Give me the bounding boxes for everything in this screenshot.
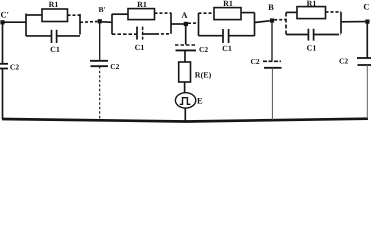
svg-text:C2: C2 xyxy=(199,45,208,54)
svg-text:B: B xyxy=(268,2,274,12)
svg-text:C′: C′ xyxy=(1,10,10,20)
svg-text:A: A xyxy=(181,10,188,20)
svg-text:C: C xyxy=(363,2,369,12)
svg-text:R1: R1 xyxy=(223,0,233,8)
svg-text:E: E xyxy=(197,95,203,105)
svg-text:C1: C1 xyxy=(50,45,60,54)
svg-text:C2: C2 xyxy=(10,63,19,72)
svg-text:B′: B′ xyxy=(98,5,105,14)
svg-text:C1: C1 xyxy=(307,43,317,52)
svg-text:R1: R1 xyxy=(307,0,317,8)
svg-text:R1: R1 xyxy=(49,0,59,9)
svg-text:R1: R1 xyxy=(137,0,147,9)
svg-text:R(E): R(E) xyxy=(195,71,212,80)
svg-text:C2: C2 xyxy=(339,57,348,66)
svg-text:C1: C1 xyxy=(135,43,145,52)
svg-text:C1: C1 xyxy=(222,44,232,53)
svg-text:C2: C2 xyxy=(251,57,260,66)
svg-text:C2: C2 xyxy=(110,62,119,71)
